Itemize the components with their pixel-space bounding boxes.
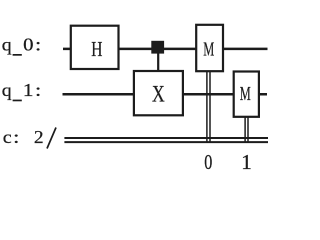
bit label 1 (241, 150, 252, 174)
bit label 0 (204, 151, 212, 175)
svg-text:q: q (2, 35, 12, 55)
svg-text::: : (13, 127, 19, 148)
classical double line from M1 (245, 117, 248, 143)
svg-text:M: M (240, 82, 251, 105)
wire q_0 (63, 48, 268, 51)
label q_0 (2, 34, 42, 56)
svg-text:H: H (91, 38, 102, 62)
classical wire c (64, 138, 268, 142)
svg-text:0: 0 (204, 151, 212, 175)
gate H (71, 26, 119, 69)
svg-text:2: 2 (34, 128, 44, 148)
svg-text:1: 1 (241, 150, 252, 174)
label q_1 (2, 80, 42, 102)
svg-text:c: c (3, 128, 12, 148)
svg-text::: : (35, 80, 41, 101)
register size slash (47, 128, 56, 149)
control square (151, 41, 164, 54)
svg-text:q: q (2, 81, 12, 101)
svg-text:0: 0 (23, 36, 33, 55)
wire q_1 (63, 93, 268, 96)
label c 2 (3, 127, 44, 148)
measure M0 (196, 25, 223, 71)
control wire to X (157, 48, 159, 72)
svg-text:1: 1 (23, 81, 34, 101)
svg-text:M: M (203, 37, 214, 60)
svg-text::: : (35, 34, 41, 55)
measure M1 (234, 72, 259, 117)
gate X (134, 71, 183, 115)
svg-text:X: X (152, 81, 165, 107)
classical double line from M0 (207, 71, 210, 142)
